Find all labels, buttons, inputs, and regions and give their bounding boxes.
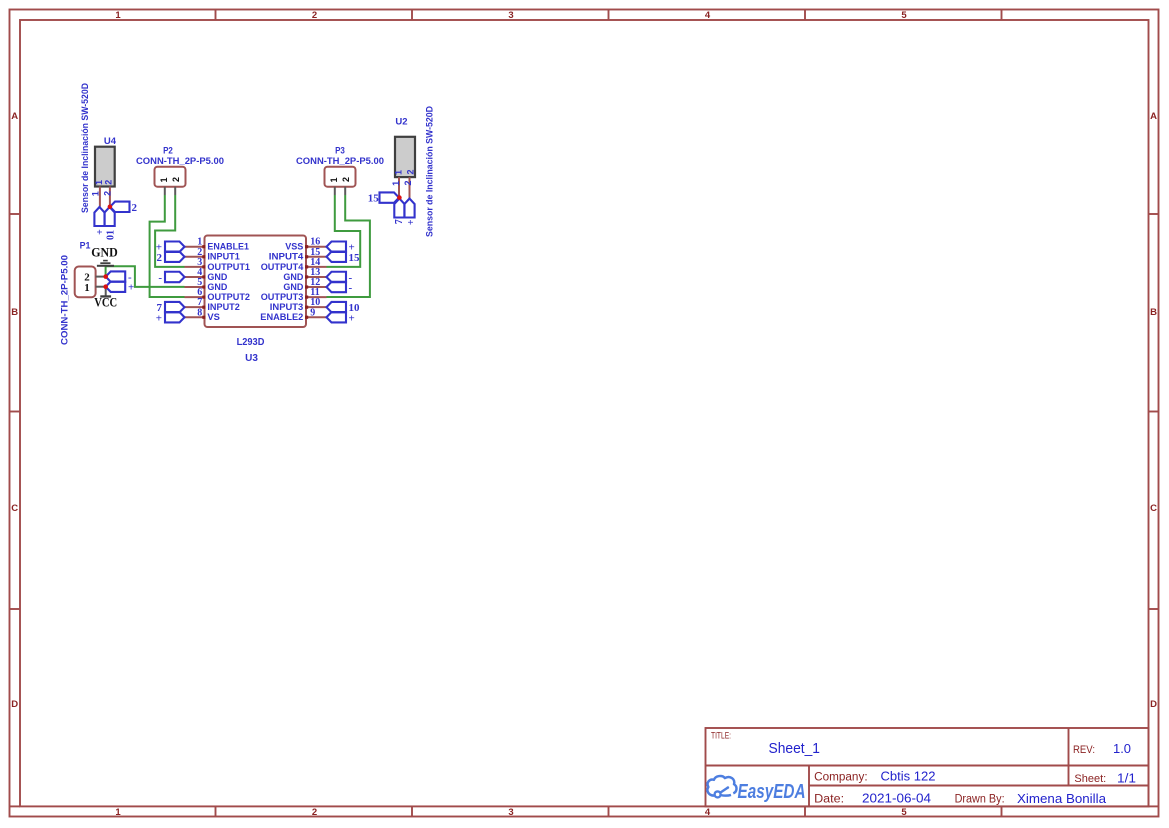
svg-text:15: 15 bbox=[349, 252, 361, 264]
svg-text:D: D bbox=[11, 699, 18, 710]
svg-text:+: + bbox=[95, 229, 106, 235]
svg-text:Ximena Bonilla: Ximena Bonilla bbox=[1017, 791, 1107, 806]
svg-text:C: C bbox=[1150, 503, 1157, 514]
svg-text:VS: VS bbox=[207, 312, 220, 322]
svg-text:2: 2 bbox=[312, 807, 317, 818]
svg-text:2: 2 bbox=[157, 252, 163, 264]
svg-text:Sensor de Inclinación SW-520D: Sensor de Inclinación SW-520D bbox=[425, 106, 436, 237]
svg-text:INPUT4: INPUT4 bbox=[269, 252, 304, 262]
svg-text:+: + bbox=[349, 312, 355, 324]
svg-text:GND: GND bbox=[283, 282, 303, 292]
svg-text:1: 1 bbox=[391, 181, 401, 186]
svg-text:2: 2 bbox=[103, 191, 113, 196]
svg-text:1.0: 1.0 bbox=[1113, 741, 1131, 756]
svg-text:1: 1 bbox=[115, 807, 121, 818]
svg-text:-: - bbox=[158, 272, 162, 284]
svg-text:INPUT3: INPUT3 bbox=[270, 302, 304, 312]
svg-text:U4: U4 bbox=[104, 136, 117, 147]
svg-text:GND: GND bbox=[283, 272, 303, 282]
svg-text:9: 9 bbox=[310, 307, 315, 318]
svg-text:+: + bbox=[128, 282, 134, 294]
svg-text:01: 01 bbox=[106, 230, 117, 240]
svg-text:+: + bbox=[406, 219, 417, 225]
svg-text:2021-06-04: 2021-06-04 bbox=[862, 791, 931, 806]
svg-text:OUTPUT4: OUTPUT4 bbox=[261, 262, 304, 272]
svg-text:OUTPUT3: OUTPUT3 bbox=[261, 292, 304, 302]
svg-text:D: D bbox=[1150, 699, 1157, 710]
svg-text:L293D: L293D bbox=[237, 337, 265, 348]
svg-text:CONN-TH_2P-P5.00: CONN-TH_2P-P5.00 bbox=[136, 156, 224, 167]
svg-text:-: - bbox=[349, 282, 353, 294]
svg-text:1: 1 bbox=[84, 282, 90, 294]
svg-text:Sheet_1: Sheet_1 bbox=[769, 740, 821, 757]
svg-text:REV:: REV: bbox=[1073, 744, 1095, 756]
svg-text:EasyEDA: EasyEDA bbox=[738, 781, 806, 803]
svg-text:2: 2 bbox=[403, 180, 413, 185]
svg-text:GND: GND bbox=[207, 282, 227, 292]
svg-text:1/1: 1/1 bbox=[1117, 771, 1136, 786]
svg-text:2: 2 bbox=[341, 177, 351, 182]
svg-text:INPUT1: INPUT1 bbox=[207, 252, 239, 262]
svg-text:P2: P2 bbox=[163, 146, 173, 157]
svg-text:A: A bbox=[11, 111, 18, 122]
svg-text:CONN-TH_2P-P5.00: CONN-TH_2P-P5.00 bbox=[60, 255, 71, 345]
svg-text:Date:: Date: bbox=[814, 794, 844, 806]
svg-text:1: 1 bbox=[94, 180, 104, 185]
svg-text:+: + bbox=[156, 312, 162, 324]
svg-text:GND: GND bbox=[91, 245, 118, 260]
svg-text:8: 8 bbox=[197, 307, 202, 318]
svg-text:CONN-TH_2P-P5.00: CONN-TH_2P-P5.00 bbox=[296, 156, 384, 167]
svg-text:1: 1 bbox=[329, 177, 339, 182]
svg-text:P3: P3 bbox=[335, 146, 345, 157]
svg-text:1: 1 bbox=[394, 170, 404, 175]
svg-text:5: 5 bbox=[901, 10, 907, 21]
svg-text:4: 4 bbox=[705, 10, 711, 21]
svg-text:15: 15 bbox=[368, 193, 380, 205]
svg-text:3: 3 bbox=[508, 10, 513, 21]
svg-text:VSS: VSS bbox=[285, 242, 303, 252]
svg-text:C: C bbox=[11, 503, 18, 514]
svg-text:2: 2 bbox=[312, 10, 317, 21]
svg-text:ENABLE1: ENABLE1 bbox=[207, 242, 249, 252]
svg-text:ENABLE2: ENABLE2 bbox=[260, 312, 303, 322]
svg-text:P1: P1 bbox=[80, 240, 91, 251]
svg-text:B: B bbox=[11, 307, 18, 318]
svg-text:VCC: VCC bbox=[94, 295, 117, 310]
svg-text:U3: U3 bbox=[245, 353, 258, 364]
svg-text:1: 1 bbox=[159, 177, 169, 182]
svg-text:7: 7 bbox=[394, 219, 405, 224]
svg-text:1: 1 bbox=[91, 191, 101, 196]
svg-text:Sheet:: Sheet: bbox=[1074, 773, 1106, 785]
svg-text:1: 1 bbox=[115, 10, 121, 21]
svg-text:2: 2 bbox=[171, 177, 181, 182]
svg-text:U2: U2 bbox=[395, 117, 407, 128]
svg-text:OUTPUT1: OUTPUT1 bbox=[207, 262, 250, 272]
svg-text:Sensor de Inclinación SW-520D: Sensor de Inclinación SW-520D bbox=[80, 83, 91, 213]
svg-text:2: 2 bbox=[132, 202, 138, 214]
svg-text:OUTPUT2: OUTPUT2 bbox=[207, 292, 250, 302]
svg-text:2: 2 bbox=[406, 169, 416, 174]
svg-text:INPUT2: INPUT2 bbox=[207, 302, 239, 312]
svg-text:3: 3 bbox=[508, 807, 513, 818]
svg-text:Company:: Company: bbox=[814, 772, 868, 784]
svg-text:TITLE:: TITLE: bbox=[711, 730, 731, 740]
svg-text:GND: GND bbox=[207, 272, 227, 282]
svg-text:4: 4 bbox=[705, 807, 711, 818]
svg-text:5: 5 bbox=[901, 807, 907, 818]
svg-text:B: B bbox=[1150, 307, 1157, 318]
svg-text:Drawn By:: Drawn By: bbox=[955, 794, 1005, 806]
svg-text:2: 2 bbox=[104, 180, 114, 185]
svg-text:A: A bbox=[1150, 111, 1157, 122]
svg-text:Cbtis 122: Cbtis 122 bbox=[881, 769, 936, 784]
